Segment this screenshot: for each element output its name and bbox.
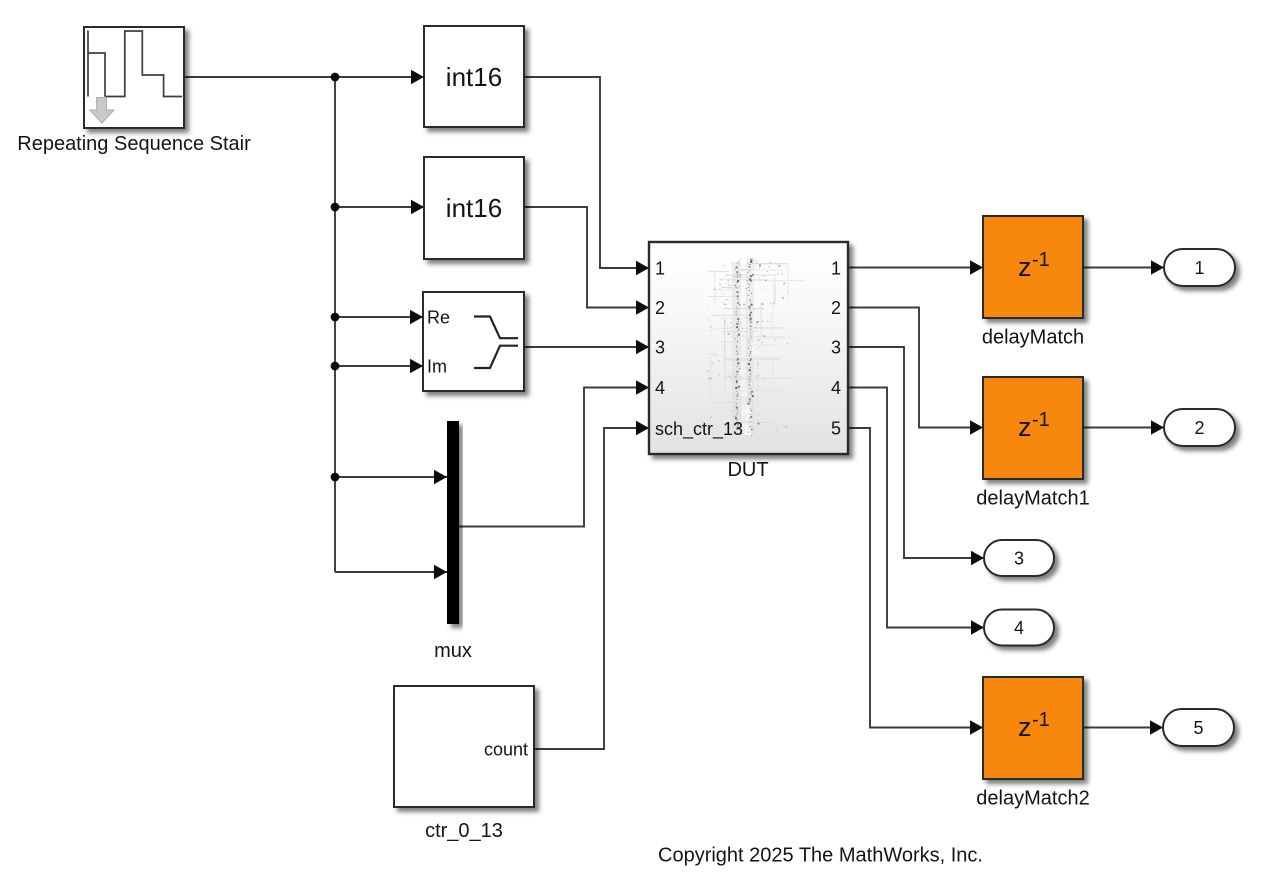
svg-text:int16: int16	[446, 193, 502, 223]
svg-text:ctr_0_13: ctr_0_13	[425, 820, 503, 842]
svg-text:z: z	[1018, 712, 1032, 742]
block: delayMatch (unit delay, orange)	[983, 216, 1083, 318]
svg-text:5: 5	[1193, 718, 1203, 738]
block: mux (black bar)	[447, 421, 459, 624]
wire: Repeating Sequence Stair output to int16 rail	[184, 76, 424, 78]
svg-text:5: 5	[831, 419, 841, 439]
wire: int16 (second) output to DUT port 2	[524, 207, 649, 308]
svg-text:z: z	[1018, 412, 1032, 442]
svg-text:delayMatch2: delayMatch2	[976, 788, 1089, 810]
svg-text:count: count	[484, 740, 528, 760]
svg-text:1: 1	[1194, 258, 1204, 278]
svg-text:sch_ctr_13: sch_ctr_13	[655, 419, 743, 440]
wire: DUT out 5 to delayMatch2	[848, 428, 983, 728]
svg-text:2: 2	[831, 298, 841, 318]
svg-text:Re: Re	[427, 308, 450, 328]
svg-text:3: 3	[831, 338, 841, 358]
wire: DUT out 4 to outport 4	[848, 388, 984, 628]
outport 3	[984, 540, 1054, 576]
svg-text:-1: -1	[1032, 409, 1050, 431]
wire: delayMatch output to outport 1	[1083, 267, 1164, 269]
wire: rail elbow to mux input 2	[335, 571, 447, 573]
block: Real-Imag to Complex (Re/Im)	[423, 292, 524, 391]
svg-text:int16: int16	[446, 62, 502, 92]
arrowheads into blocks	[411, 70, 424, 84]
svg-text:4: 4	[1014, 618, 1024, 638]
wire: rail branch to Im port	[335, 365, 423, 367]
outport 1	[1164, 249, 1235, 286]
wire: delayMatch2 output to outport 5	[1083, 727, 1163, 729]
svg-text:Im: Im	[427, 357, 447, 377]
wire: left vertical rail	[334, 77, 336, 572]
svg-text:4: 4	[831, 378, 841, 398]
svg-text:z: z	[1018, 252, 1032, 282]
wire: int16 (first) output to DUT port 1	[524, 77, 649, 268]
block: ctr_0_13 counter	[394, 686, 534, 807]
svg-text:3: 3	[655, 338, 665, 358]
outport 2	[1164, 409, 1235, 446]
svg-text:3: 3	[1014, 549, 1024, 569]
block: DUT subsystem	[649, 242, 848, 454]
svg-text:delayMatch: delayMatch	[982, 327, 1084, 349]
svg-text:Copyright 2025 The MathWorks,: Copyright 2025 The MathWorks, Inc.	[658, 845, 983, 867]
block: int16 (second)	[424, 157, 524, 259]
svg-text:-1: -1	[1032, 249, 1050, 271]
block: delayMatch1 (unit delay, orange)	[983, 377, 1083, 479]
block: Repeating Sequence Stair	[84, 27, 184, 128]
svg-text:Repeating Sequence Stair: Repeating Sequence Stair	[17, 133, 251, 155]
wire: mux output to DUT port 4	[459, 388, 649, 527]
block: int16 (first)	[424, 26, 524, 127]
wire: ctr_0_13 count output to DUT sch_ctr_13 port	[534, 428, 649, 749]
wire: rail branch to mux input 1	[335, 476, 447, 478]
wire: DUT out 1 to delayMatch	[848, 267, 983, 269]
svg-text:1: 1	[831, 259, 841, 279]
outport 4	[984, 610, 1054, 646]
svg-text:delayMatch1: delayMatch1	[976, 488, 1089, 510]
svg-text:DUT: DUT	[727, 459, 768, 481]
wire: DUT out 3 to outport 3	[848, 347, 984, 558]
wire: rail branch to int16 (second)	[335, 206, 424, 208]
svg-text:1: 1	[655, 259, 665, 279]
outport 5	[1163, 709, 1234, 746]
block: delayMatch2 (unit delay, orange)	[983, 677, 1083, 779]
svg-text:-1: -1	[1032, 709, 1050, 731]
wire: delayMatch1 output to outport 2	[1083, 427, 1164, 429]
svg-text:2: 2	[1194, 418, 1204, 438]
junction dots on left rail	[331, 73, 340, 82]
svg-text:2: 2	[655, 298, 665, 318]
wire: Re/Im output to DUT port 3	[524, 346, 649, 348]
wire: DUT out 2 to delayMatch1	[848, 308, 983, 428]
DUT interior screenshot noise	[706, 258, 805, 436]
wire: rail branch to Re port	[335, 316, 423, 318]
svg-text:4: 4	[655, 378, 665, 398]
svg-text:mux: mux	[434, 640, 472, 662]
